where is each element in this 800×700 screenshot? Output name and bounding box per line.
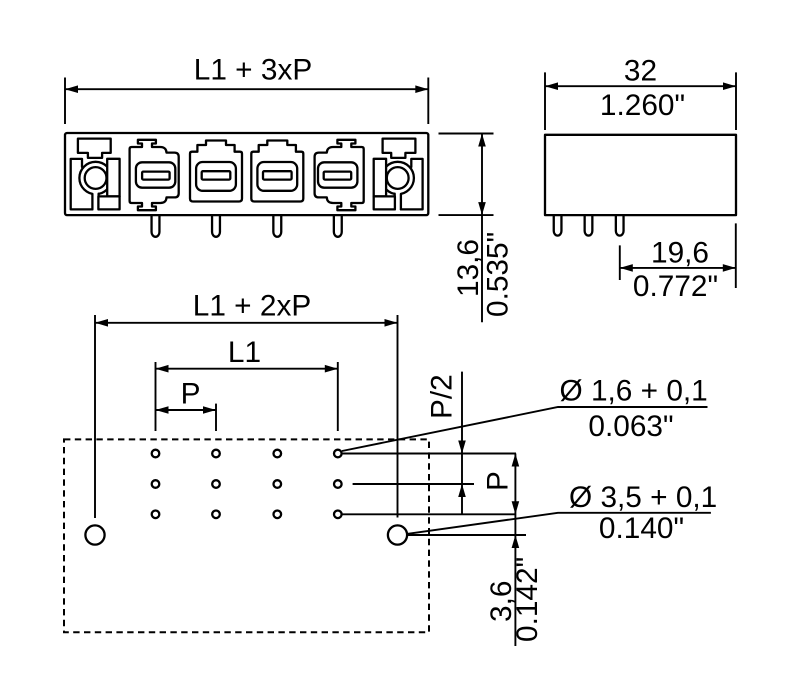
dimension P line bbox=[156, 409, 217, 411]
svg-text:0.063": 0.063" bbox=[588, 410, 673, 443]
side pin 1 bbox=[554, 215, 562, 236]
dimension L1 line bbox=[156, 368, 338, 370]
flange top tab bbox=[78, 139, 111, 158]
dimension L1+3xP line bbox=[65, 88, 428, 90]
svg-text:L1: L1 bbox=[228, 336, 261, 369]
svg-text:L1 + 2xP: L1 + 2xP bbox=[193, 290, 311, 323]
svg-text:P: P bbox=[482, 471, 515, 491]
svg-text:P: P bbox=[181, 378, 201, 411]
dimension 13,6 line bbox=[481, 134, 483, 323]
big mounting hole left bbox=[85, 525, 104, 544]
svg-text:0.535": 0.535" bbox=[482, 232, 515, 317]
contact 1 (tab top+bottom) bbox=[130, 140, 179, 210]
dimension 3,6 arrow bbox=[512, 535, 520, 548]
solder pin 4 front bbox=[334, 215, 342, 237]
mounting flange right (mirror) bbox=[374, 139, 423, 210]
flange right bar bbox=[107, 159, 119, 197]
connector body side view bbox=[545, 135, 736, 215]
dimension P vertical line bbox=[514, 454, 516, 647]
big mounting hole right bbox=[388, 525, 407, 544]
leader diagonal hole 3,5 bbox=[408, 513, 711, 534]
svg-text:Ø 3,5 + 0,1: Ø 3,5 + 0,1 bbox=[569, 481, 717, 514]
solder pin 2 front bbox=[212, 215, 220, 237]
small holes grid bbox=[152, 450, 342, 518]
leader diagonal hole 1,6 bbox=[342, 407, 708, 451]
leader row 2 bbox=[353, 483, 474, 485]
leader row 1 bbox=[342, 453, 516, 455]
dimension P/2 line bbox=[461, 372, 463, 515]
solder pin 3 front bbox=[273, 215, 281, 237]
dimension L1 witness lines bbox=[156, 362, 338, 431]
svg-text:L1 + 3xP: L1 + 3xP bbox=[194, 53, 312, 86]
svg-text:0.772": 0.772" bbox=[633, 270, 718, 303]
svg-text:1.260": 1.260" bbox=[600, 89, 685, 122]
svg-text:13,6: 13,6 bbox=[452, 239, 485, 297]
dimension L1+3xP witness lines bbox=[65, 78, 428, 125]
solder pin 1 front bbox=[152, 215, 160, 237]
dimension L1+2xP witness lines bbox=[95, 315, 398, 518]
flange bottom step bbox=[98, 196, 119, 209]
side pin 2 bbox=[585, 215, 593, 235]
side pin 3 bbox=[616, 215, 624, 236]
flange left bar bbox=[71, 159, 93, 210]
svg-text:0.142": 0.142" bbox=[511, 557, 544, 642]
flange screw circle bbox=[85, 167, 107, 189]
svg-text:32: 32 bbox=[624, 55, 657, 88]
mounting flange left bbox=[71, 139, 120, 210]
dimension L1+2xP line bbox=[95, 322, 398, 324]
dimension 19,6 line bbox=[620, 267, 736, 269]
contact 2 (tab top) bbox=[190, 141, 242, 202]
svg-text:Ø 1,6 + 0,1: Ø 1,6 + 0,1 bbox=[560, 374, 708, 407]
dimension 19,6 witness lines bbox=[620, 223, 736, 288]
svg-text:0.140": 0.140" bbox=[599, 512, 684, 545]
contact 3 (mirror of contact 2) bbox=[251, 141, 303, 202]
svg-text:19,6: 19,6 bbox=[651, 236, 709, 269]
leader big hole bbox=[408, 534, 526, 536]
dimension 32 line bbox=[545, 85, 736, 87]
dimension P witness line bbox=[215, 404, 217, 431]
flange keyhole stem bbox=[92, 194, 98, 210]
contact 4 (mirror of contact 1) bbox=[315, 140, 364, 210]
connector body front view bbox=[65, 133, 428, 215]
flange ring outer arc bbox=[79, 162, 111, 194]
drilling outline dashed bbox=[64, 439, 429, 632]
dimension 13,6 ticks bbox=[439, 134, 494, 216]
leader row 3 bbox=[342, 513, 516, 515]
dimension 32 witness lines bbox=[545, 72, 736, 130]
svg-text:P/2: P/2 bbox=[426, 374, 459, 419]
